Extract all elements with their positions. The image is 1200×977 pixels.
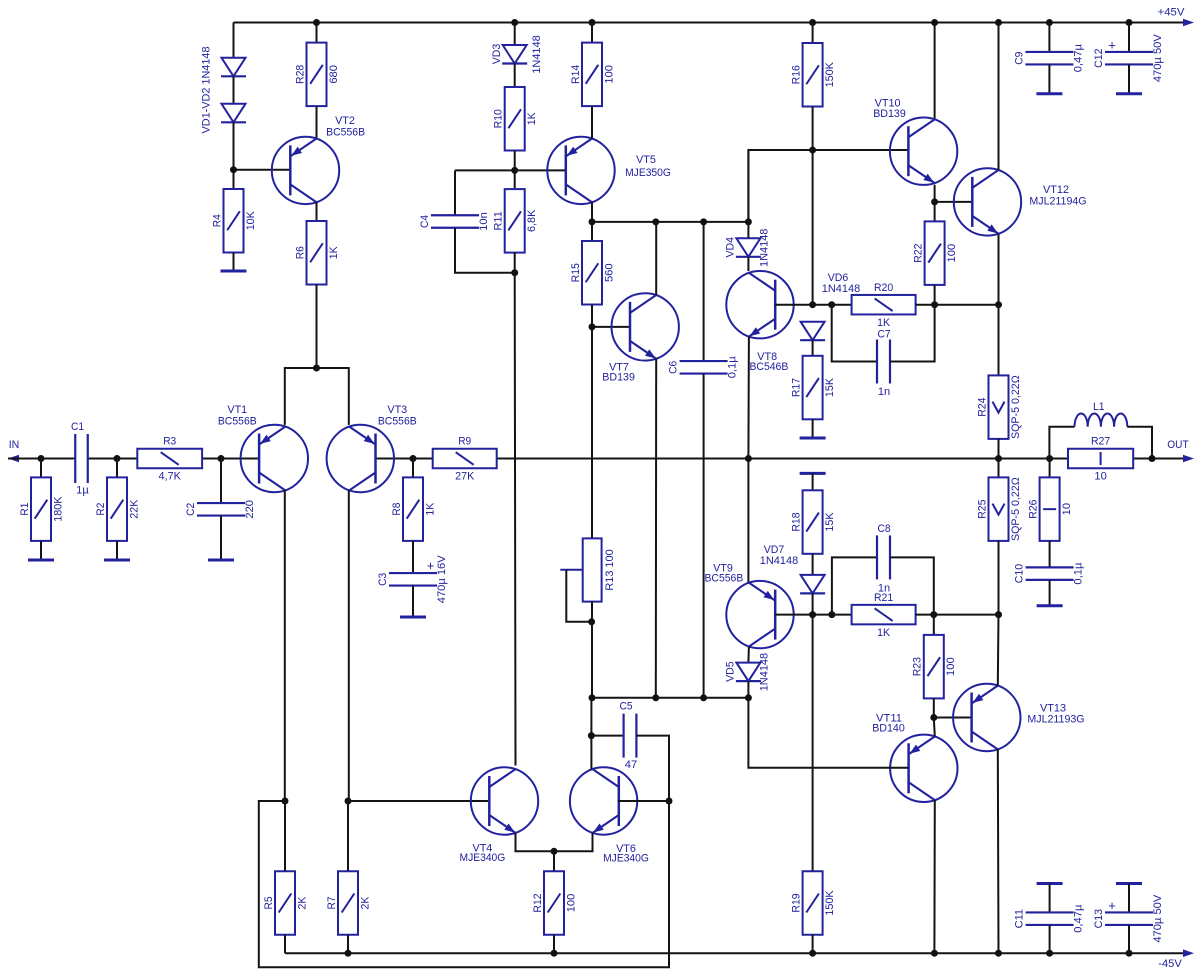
svg-text:1K: 1K bbox=[526, 112, 538, 126]
svg-text:10n: 10n bbox=[478, 212, 490, 231]
svg-text:BD140: BD140 bbox=[872, 722, 905, 734]
svg-text:180K: 180K bbox=[52, 496, 64, 522]
svg-text:VD5: VD5 bbox=[725, 661, 737, 682]
svg-text:BC546B: BC546B bbox=[749, 361, 788, 373]
svg-text:R17: R17 bbox=[791, 378, 803, 397]
svg-text:6,8K: 6,8K bbox=[526, 209, 538, 232]
svg-text:R3: R3 bbox=[163, 436, 176, 448]
svg-text:MJL21193G: MJL21193G bbox=[1027, 713, 1084, 725]
svg-text:C7: C7 bbox=[877, 329, 890, 341]
svg-text:1K: 1K bbox=[877, 627, 891, 639]
svg-text:C3: C3 bbox=[377, 573, 389, 586]
svg-text:VT2: VT2 bbox=[335, 115, 355, 127]
svg-text:C9: C9 bbox=[1014, 52, 1026, 65]
svg-text:VT12: VT12 bbox=[1043, 184, 1069, 196]
svg-text:150K: 150K bbox=[824, 890, 836, 916]
svg-text:100: 100 bbox=[565, 894, 577, 913]
svg-text:MJE340G: MJE340G bbox=[460, 852, 506, 864]
svg-text:1K: 1K bbox=[424, 502, 436, 516]
svg-text:R18: R18 bbox=[791, 512, 803, 531]
svg-text:R11: R11 bbox=[493, 211, 505, 230]
svg-text:C1: C1 bbox=[71, 421, 84, 433]
svg-text:R20: R20 bbox=[874, 282, 893, 294]
svg-text:C2: C2 bbox=[185, 503, 197, 516]
svg-text:VT5: VT5 bbox=[636, 154, 656, 166]
svg-text:C4: C4 bbox=[419, 215, 431, 228]
svg-text:R10: R10 bbox=[493, 109, 505, 128]
svg-text:R14: R14 bbox=[570, 65, 582, 84]
svg-text:R22: R22 bbox=[913, 244, 925, 263]
svg-text:R1: R1 bbox=[19, 503, 31, 516]
svg-text:C5: C5 bbox=[619, 701, 632, 713]
svg-text:15K: 15K bbox=[824, 512, 836, 532]
svg-text:R6: R6 bbox=[294, 246, 306, 259]
svg-text:R19: R19 bbox=[791, 893, 803, 912]
svg-text:R16: R16 bbox=[791, 65, 803, 84]
svg-text:470µ 50V: 470µ 50V bbox=[1152, 894, 1164, 943]
svg-text:BC556B: BC556B bbox=[326, 127, 365, 139]
svg-text:BC556B: BC556B bbox=[704, 573, 743, 585]
svg-text:R25: R25 bbox=[976, 500, 988, 519]
svg-text:4,7K: 4,7K bbox=[159, 471, 182, 483]
svg-text:47: 47 bbox=[625, 759, 637, 771]
svg-text:MJL21194G: MJL21194G bbox=[1029, 195, 1086, 207]
svg-text:MJE350G: MJE350G bbox=[625, 167, 671, 179]
svg-text:R4: R4 bbox=[211, 214, 223, 227]
svg-text:2K: 2K bbox=[296, 896, 308, 910]
svg-text:SQP-5 0,22Ω: SQP-5 0,22Ω bbox=[1010, 477, 1022, 541]
svg-text:1K: 1K bbox=[328, 246, 340, 260]
svg-text:470µ 50V: 470µ 50V bbox=[1152, 34, 1164, 83]
svg-text:150K: 150K bbox=[824, 61, 836, 87]
svg-text:R15: R15 bbox=[570, 263, 582, 282]
svg-text:R23: R23 bbox=[912, 657, 924, 676]
svg-text:0,47µ: 0,47µ bbox=[1073, 43, 1085, 72]
svg-text:R28: R28 bbox=[294, 65, 306, 84]
svg-text:220: 220 bbox=[244, 500, 256, 519]
svg-text:R9: R9 bbox=[458, 436, 471, 448]
svg-text:1N4148: 1N4148 bbox=[531, 35, 543, 73]
svg-text:10: 10 bbox=[1061, 503, 1073, 515]
svg-text:-45V: -45V bbox=[1158, 958, 1182, 970]
svg-text:1n: 1n bbox=[878, 386, 890, 398]
svg-text:1µ: 1µ bbox=[76, 485, 89, 497]
svg-text:VT1: VT1 bbox=[227, 404, 247, 416]
svg-text:C8: C8 bbox=[877, 523, 890, 535]
svg-text:680: 680 bbox=[328, 65, 340, 84]
svg-text:BC556B: BC556B bbox=[378, 416, 417, 428]
svg-text:0,47µ: 0,47µ bbox=[1073, 904, 1085, 933]
svg-text:1n: 1n bbox=[878, 583, 890, 595]
svg-text:BC556B: BC556B bbox=[218, 416, 257, 428]
svg-text:+45V: +45V bbox=[1158, 7, 1186, 19]
svg-text:1K: 1K bbox=[877, 317, 891, 329]
svg-text:VD4: VD4 bbox=[725, 237, 737, 257]
svg-text:R26: R26 bbox=[1028, 500, 1040, 519]
svg-text:0,1µ: 0,1µ bbox=[1073, 562, 1085, 585]
svg-text:R7: R7 bbox=[326, 897, 338, 910]
svg-text:1N4148: 1N4148 bbox=[760, 555, 798, 567]
svg-text:22K: 22K bbox=[128, 499, 140, 519]
svg-text:560: 560 bbox=[603, 263, 615, 282]
svg-text:BD139: BD139 bbox=[602, 372, 635, 384]
svg-text:C13: C13 bbox=[1093, 909, 1105, 928]
svg-text:100: 100 bbox=[946, 244, 958, 263]
svg-text:10K: 10K bbox=[245, 210, 257, 230]
svg-text:C11: C11 bbox=[1014, 909, 1026, 928]
svg-text:R24: R24 bbox=[976, 398, 988, 417]
svg-text:MJE340G: MJE340G bbox=[603, 853, 649, 865]
svg-text:R13 100: R13 100 bbox=[604, 549, 616, 590]
svg-text:1N4148: 1N4148 bbox=[759, 653, 771, 691]
svg-text:27K: 27K bbox=[455, 471, 475, 483]
svg-text:+: + bbox=[1108, 38, 1116, 53]
svg-text:L1: L1 bbox=[1093, 401, 1105, 413]
svg-text:100: 100 bbox=[945, 657, 957, 676]
svg-text:BD139: BD139 bbox=[873, 108, 906, 120]
svg-text:+: + bbox=[427, 558, 435, 573]
svg-text:0,1µ: 0,1µ bbox=[727, 356, 739, 379]
svg-text:100: 100 bbox=[603, 65, 615, 84]
svg-text:2K: 2K bbox=[359, 896, 371, 910]
svg-text:R2: R2 bbox=[95, 503, 107, 516]
svg-text:C10: C10 bbox=[1014, 564, 1026, 583]
svg-text:470µ 16V: 470µ 16V bbox=[436, 555, 448, 604]
svg-text:VD1-VD2 1N4148: VD1-VD2 1N4148 bbox=[201, 47, 213, 134]
svg-text:R8: R8 bbox=[391, 503, 403, 516]
svg-text:15K: 15K bbox=[824, 377, 836, 397]
svg-text:VD3: VD3 bbox=[491, 44, 503, 65]
svg-text:R5: R5 bbox=[263, 897, 275, 910]
svg-text:C6: C6 bbox=[668, 361, 680, 374]
svg-text:+: + bbox=[1108, 898, 1116, 913]
svg-text:R12: R12 bbox=[532, 893, 544, 912]
svg-text:IN: IN bbox=[9, 439, 20, 451]
svg-text:10: 10 bbox=[1094, 471, 1106, 483]
svg-text:R27: R27 bbox=[1091, 436, 1110, 448]
svg-text:1N4148: 1N4148 bbox=[759, 229, 771, 267]
svg-text:VT3: VT3 bbox=[387, 404, 407, 416]
svg-text:C12: C12 bbox=[1093, 49, 1105, 68]
svg-text:1N4148: 1N4148 bbox=[822, 283, 860, 295]
svg-text:SQP-5 0,22Ω: SQP-5 0,22Ω bbox=[1010, 375, 1022, 439]
svg-text:OUT: OUT bbox=[1167, 439, 1189, 451]
